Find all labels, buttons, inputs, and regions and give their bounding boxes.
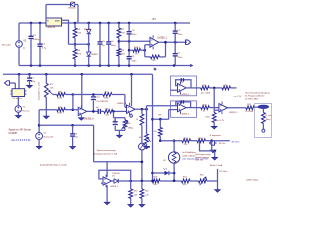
net label square on rail bbox=[154, 68, 156, 70]
svg-text:LM358_B: LM358_B bbox=[117, 103, 127, 105]
wire trim top join bbox=[114, 117, 126, 119]
svg-text:10n: 10n bbox=[75, 136, 78, 138]
wire to pot R1 bbox=[45, 74, 47, 83]
ground below R12 bbox=[139, 205, 144, 207]
wire cap to out node bbox=[92, 100, 94, 111]
wire row to R17 bbox=[160, 140, 182, 142]
ground loop bbox=[212, 158, 217, 160]
wire R4 to 0V bbox=[74, 59, 76, 66]
svg-text:ca. 1.7V: ca. 1.7V bbox=[234, 96, 242, 98]
wire V2 to ground bbox=[17, 112, 19, 115]
wire to C8 bbox=[128, 23, 130, 31]
wire U7 plus stub bbox=[214, 109, 219, 111]
svg-text:LM358_A: LM358_A bbox=[84, 117, 94, 120]
port line in bbox=[5, 81, 10, 85]
resistor R23 bbox=[201, 106, 210, 110]
wire to C4 bbox=[39, 23, 41, 44]
svg-text:10 mW 1 dBm: 10 mW 1 dBm bbox=[245, 98, 258, 100]
svg-text:Lautstärke ca. 1:10: Lautstärke ca. 1:10 bbox=[37, 81, 40, 100]
capacitor C9 bbox=[127, 56, 132, 58]
junction on 0V rail bbox=[39, 64, 42, 67]
junction U2 fb bbox=[164, 41, 167, 44]
svg-text:1Meg: 1Meg bbox=[128, 128, 134, 130]
wire node link bbox=[72, 95, 74, 110]
resistor R14 bbox=[182, 179, 191, 183]
lamp LA1 bbox=[168, 152, 179, 163]
wire trim bottom join bbox=[115, 129, 125, 131]
meter M1 (1 mA instrument) bbox=[139, 143, 146, 150]
resistor R12 bbox=[140, 189, 144, 198]
svg-text:Gleichspannungs-: Gleichspannungs- bbox=[195, 154, 211, 156]
wire trim cap top bbox=[114, 118, 116, 122]
wire C5 to 0V bbox=[99, 45, 101, 66]
potentiometer R1 bbox=[44, 83, 48, 97]
svg-text:Gleichstromfreier Ausgang: Gleichstromfreier Ausgang bbox=[245, 92, 270, 95]
wire rail to U5 power bbox=[131, 74, 133, 106]
svg-text:ca. 0.7V: ca. 0.7V bbox=[216, 120, 224, 122]
junction on 0V rail bbox=[173, 64, 176, 67]
wire R10 to meter bbox=[141, 125, 143, 143]
wire U8 power up bbox=[106, 162, 108, 177]
resistor R2 bbox=[117, 28, 121, 38]
wire R2 to R3 bbox=[118, 38, 120, 49]
capacitor C6 bbox=[106, 41, 111, 43]
wire fb loop speaker bbox=[200, 141, 212, 151]
wire rectifier row left bbox=[118, 180, 152, 182]
svg-text:100n: 100n bbox=[178, 57, 184, 59]
wire C7 to ground bbox=[29, 81, 31, 85]
svg-text:K1 Stereo: K1 Stereo bbox=[13, 97, 23, 100]
pot R16 arrow bbox=[147, 137, 151, 142]
wire fb left bbox=[73, 94, 103, 96]
wire U1 plus stub bbox=[171, 89, 178, 91]
wire D4 cathode bbox=[75, 4, 78, 6]
ground below R16 bbox=[144, 146, 149, 148]
junction V1 tap bbox=[38, 124, 41, 127]
capacitor C13 bbox=[181, 78, 183, 81]
wire to C5 bbox=[99, 23, 101, 42]
wire R12 to ground bbox=[141, 198, 143, 204]
rail +9V mid bbox=[3, 73, 153, 75]
junction on 0V rail bbox=[74, 64, 77, 67]
svg-text:für Frequenz-Weiche: für Frequenz-Weiche bbox=[245, 95, 265, 98]
junction on cap column bbox=[128, 49, 131, 52]
wire down to connector bbox=[14, 83, 16, 89]
wire U6 output bbox=[186, 107, 201, 109]
capacitor C3 bbox=[29, 35, 34, 37]
wire U8 plus stub bbox=[101, 182, 103, 184]
wire R20 out bbox=[231, 87, 237, 89]
wire lamp top bbox=[173, 141, 175, 152]
wire U2 output bbox=[159, 41, 187, 43]
wire LM317 output pin bbox=[62, 22, 64, 24]
wire to R12 bbox=[141, 181, 143, 189]
svg-text:KOKE5T: KOKE5T bbox=[9, 133, 19, 135]
capacitor C14 bbox=[181, 100, 183, 103]
wire to R11 bbox=[130, 181, 132, 189]
wire D2 to 0V bbox=[88, 56, 90, 65]
junction vref bbox=[118, 40, 121, 43]
junction in node bbox=[72, 108, 75, 111]
junction on 0V rail bbox=[107, 64, 110, 67]
junction U6 in bbox=[151, 118, 154, 121]
wire to D4 anode bbox=[46, 4, 71, 6]
wire fb to U2 output bbox=[165, 42, 167, 57]
diode D2 bbox=[87, 52, 91, 56]
capacitor C7 bbox=[27, 77, 32, 79]
junction C15 bbox=[71, 124, 74, 127]
wire R3a to node bbox=[65, 94, 73, 96]
junction on mid rail bbox=[28, 73, 31, 76]
resistor R13 bbox=[152, 179, 160, 183]
junction R9 top bbox=[159, 118, 162, 121]
svg-text:1N4002: 1N4002 bbox=[91, 54, 99, 56]
svg-text:Skala 0..1mA: Skala 0..1mA bbox=[210, 164, 223, 167]
ground below C15 bbox=[70, 147, 75, 149]
rail 0V bbox=[19, 65, 192, 67]
wire to C15 bbox=[72, 125, 74, 133]
junction fb cap bbox=[92, 93, 95, 96]
junction R9 bottom bbox=[159, 139, 162, 142]
wire C4 to 0V bbox=[39, 47, 41, 66]
svg-text:100Hz 500µs: 100Hz 500µs bbox=[246, 180, 258, 182]
wire pot R16 to ground bbox=[146, 144, 148, 146]
wire trim pot top bbox=[124, 118, 126, 120]
wire to R22 bbox=[129, 49, 133, 51]
rail +5V bbox=[63, 22, 190, 24]
port NF out bbox=[210, 141, 215, 145]
capacitor C4 bbox=[38, 43, 43, 45]
wire R18 out bbox=[206, 140, 212, 142]
annotation box 1 (OTA section) bbox=[171, 76, 197, 96]
wire port to connector bbox=[10, 82, 16, 84]
junction on +5V rail bbox=[99, 22, 102, 25]
lamp P_Line bbox=[258, 105, 269, 109]
resistor R19 bbox=[201, 86, 210, 90]
capacitor C11 bbox=[113, 121, 118, 123]
wire U5 output bbox=[135, 108, 148, 110]
resistor R6b bbox=[104, 110, 113, 114]
op-amp U4 bbox=[78, 107, 87, 115]
wire K1 to V2 bbox=[17, 97, 19, 106]
ground below V2 bbox=[16, 116, 21, 118]
wire R21 to load bbox=[254, 106, 258, 108]
capacitor C2 bbox=[173, 30, 178, 32]
junction loop bbox=[213, 150, 216, 153]
diode D4 bbox=[71, 2, 75, 6]
wire to C2 bbox=[174, 23, 176, 31]
wire U1 feedback bbox=[176, 80, 191, 88]
wire K1 pin d bbox=[25, 93, 27, 95]
trimmer R15 bbox=[199, 179, 208, 183]
junction on 0V rail bbox=[87, 64, 90, 67]
diode D1 bbox=[87, 30, 91, 34]
junction dc out bbox=[213, 87, 216, 90]
svg-text:4.7µ: 4.7µ bbox=[42, 47, 47, 49]
resistor R4a bbox=[73, 49, 77, 59]
voltage source V5 bbox=[16, 41, 23, 48]
wire C2 down bbox=[174, 34, 176, 42]
svg-text:LM358_4: LM358_4 bbox=[181, 113, 191, 115]
junction on mid rail bbox=[130, 73, 133, 76]
ground end of row bbox=[215, 190, 220, 192]
junction on 0V rail bbox=[99, 64, 102, 67]
load box outline bbox=[255, 104, 272, 138]
port Vref out bbox=[186, 40, 191, 44]
wire U7 output bbox=[228, 107, 246, 109]
wire NF out stub bbox=[215, 142, 217, 144]
wire to U2 inverting bbox=[145, 44, 150, 46]
svg-text:Rser=4: Rser=4 bbox=[23, 109, 31, 112]
wire v3 to LED bbox=[153, 172, 165, 174]
wire adj node to diodes bbox=[69, 43, 89, 45]
diode D5 bbox=[114, 179, 118, 183]
wire V1 to ground bbox=[38, 139, 40, 146]
capacitor C1 bbox=[173, 53, 178, 55]
wire vref to opamp U2 bbox=[119, 40, 150, 42]
wire to R10 bbox=[141, 109, 143, 114]
svg-text:gegenkopplung: gegenkopplung bbox=[195, 157, 209, 159]
junction U2 out cap bbox=[174, 41, 177, 44]
wire to U6 plus bbox=[153, 118, 169, 120]
wire R15 to ground drop bbox=[207, 180, 218, 182]
junction lamp top bbox=[173, 139, 176, 142]
wire to R6 bbox=[145, 56, 151, 58]
junction lamp row bbox=[173, 179, 176, 182]
wire to LM317 input bbox=[19, 22, 46, 24]
wire drop to R9 bbox=[159, 119, 161, 127]
wire speaker node right bbox=[212, 140, 230, 142]
svg-text:1N4002: 1N4002 bbox=[68, 8, 76, 10]
wire into U5 inverting bbox=[125, 106, 127, 108]
capacitor C12 bbox=[91, 96, 96, 98]
svg-text:über 2k2: über 2k2 bbox=[195, 160, 204, 162]
junction on 0V rail bbox=[118, 64, 121, 67]
svg-text:ges. 1/4W: ges. 1/4W bbox=[201, 93, 210, 95]
wire to R5 bbox=[74, 23, 76, 28]
wire V5 top to rail bbox=[18, 23, 20, 41]
wire R22 to loop bbox=[141, 49, 145, 51]
svg-text:100 Ohm: 100 Ohm bbox=[219, 171, 228, 173]
wire C9 to 0V bbox=[128, 60, 130, 66]
ground below R11 bbox=[128, 205, 133, 207]
resistor R20 bbox=[222, 86, 231, 90]
junction on +5V rail bbox=[107, 22, 110, 25]
wire U8 out to D5 bbox=[112, 180, 114, 182]
ground below trimmer bbox=[117, 135, 122, 137]
wire to C7 bbox=[29, 74, 31, 78]
junction on mid rail bbox=[81, 73, 84, 76]
wire W1 to rectifier bbox=[39, 124, 94, 126]
wire C1 to 0V bbox=[174, 57, 176, 66]
svg-text:Rser=50: Rser=50 bbox=[2, 43, 11, 46]
wire pot to ground bbox=[45, 97, 47, 116]
resistor R17 bbox=[182, 139, 191, 143]
resistor R22 bbox=[133, 48, 141, 52]
junction on 0V rail bbox=[128, 64, 131, 67]
wire rail to connector bbox=[18, 74, 20, 88]
wire up to diode D4 bbox=[45, 5, 47, 24]
wire fb down to U5 in bbox=[124, 95, 126, 108]
wire C8 to C9 bbox=[128, 35, 130, 57]
capacitor C15 bbox=[70, 133, 75, 135]
wire R13 to R14 bbox=[160, 180, 182, 182]
junction LED row left bbox=[151, 172, 154, 175]
wire C10 to R6b bbox=[100, 110, 104, 112]
resistor R18 bbox=[197, 139, 206, 143]
wire rail to U4 power bbox=[81, 74, 83, 108]
resistor R11 bbox=[129, 189, 133, 198]
resistor R10 bbox=[140, 114, 144, 125]
wire down to ground bbox=[217, 181, 219, 189]
svg-text:.tran 0 1.5 0.5 0.01: .tran 0 1.5 0.5 0.01 bbox=[11, 139, 32, 142]
wire RLoad to node bbox=[262, 124, 264, 130]
junction bottom feed bbox=[141, 161, 144, 164]
wire U4 out bbox=[87, 110, 98, 112]
svg-text:Rser=0.5k: Rser=0.5k bbox=[44, 136, 54, 139]
wire LM317 adj bbox=[62, 20, 69, 44]
wire U6 feedback bbox=[176, 102, 191, 108]
wire R14 to R15 bbox=[190, 180, 199, 182]
svg-text:1N4002: 1N4002 bbox=[84, 29, 92, 31]
LED D6 bbox=[165, 171, 169, 175]
junction U2 loop bbox=[144, 49, 147, 52]
wire lamp to RLoad bbox=[262, 109, 264, 113]
connector K1 bbox=[12, 89, 25, 97]
wire D1 to D2 bbox=[88, 34, 90, 48]
wire stub up bbox=[217, 169, 219, 181]
wire down to V1 bbox=[38, 110, 40, 133]
wire R4b to node bbox=[65, 109, 73, 111]
wire U8 power down bbox=[106, 185, 108, 202]
svg-text:1000µ: 1000µ bbox=[33, 39, 40, 41]
wire R23 to U7 bbox=[209, 107, 219, 109]
op-amp U7 bbox=[219, 104, 228, 112]
voltage source V2 bbox=[15, 106, 22, 113]
wire D4 down to output rail bbox=[77, 5, 79, 24]
wire R24 to ground bbox=[213, 123, 215, 127]
wire to U4 input bbox=[73, 109, 78, 111]
junction on +5V rail bbox=[30, 22, 33, 25]
wire fb vertical bbox=[144, 45, 146, 57]
capacitor C10 bbox=[98, 109, 100, 114]
junction on +5V rail bbox=[39, 22, 42, 25]
wire to D2 bbox=[88, 44, 90, 52]
wire trim cap bottom bbox=[114, 125, 116, 130]
resistor R6 bbox=[151, 55, 160, 59]
wire to R2 bbox=[118, 23, 120, 28]
junction vref cap bbox=[128, 40, 131, 43]
svg-text:100n: 100n bbox=[132, 34, 138, 36]
svg-text:Signal von NF-Sensor: Signal von NF-Sensor bbox=[9, 129, 32, 132]
svg-text:1Meg: 1Meg bbox=[266, 119, 271, 121]
annotation box 2 (buffer section) bbox=[171, 101, 197, 117]
resistor R5 bbox=[73, 28, 77, 38]
wire fb right bbox=[112, 94, 125, 96]
wire R17 to R18 bbox=[191, 140, 198, 142]
wire to C1 bbox=[174, 42, 176, 53]
wire U5 out to U6 inverting bbox=[147, 105, 178, 107]
junction long vert B bbox=[145, 108, 148, 111]
junction adj node bbox=[74, 43, 77, 46]
wire to U5 bbox=[113, 110, 127, 112]
trimmer R15 arrow bbox=[200, 177, 207, 186]
svg-text:R anpassen: R anpassen bbox=[210, 135, 222, 137]
wire R19 to R20 bbox=[209, 87, 222, 89]
resistor R4b bbox=[57, 108, 66, 112]
wire down to R24 bbox=[213, 110, 215, 112]
wire loop to ground bbox=[214, 151, 216, 157]
wire R6 to output bbox=[160, 56, 166, 58]
junction out node bbox=[92, 110, 95, 113]
junction long vert A bbox=[141, 108, 144, 111]
svg-text:R_Line: R_Line bbox=[266, 115, 272, 117]
regulator U3 LM317 bbox=[46, 18, 62, 26]
svg-text:LM358_2: LM358_2 bbox=[110, 186, 120, 188]
wire lamp bottom bbox=[173, 163, 175, 181]
wire loop right bbox=[212, 150, 215, 152]
wire to C6 bbox=[108, 23, 110, 42]
ground below pot bbox=[44, 116, 49, 118]
op-amp U6 bbox=[178, 103, 187, 111]
wire signal down to U8 bbox=[93, 125, 95, 162]
resistor R3 bbox=[117, 49, 121, 57]
trimmer R8 arrow bbox=[121, 121, 128, 130]
ground NF out bbox=[210, 150, 215, 152]
wire trim to ground bbox=[118, 130, 120, 135]
junction on +5V rail bbox=[128, 22, 131, 25]
wire C6 to 0V bbox=[108, 45, 110, 66]
junction speaker node bbox=[210, 139, 213, 142]
svg-text:100n: 100n bbox=[178, 34, 184, 36]
wire to D1 bbox=[88, 23, 90, 30]
junction R12 bbox=[141, 180, 144, 183]
capacitor C8 bbox=[127, 31, 132, 33]
junction v3 row bbox=[151, 180, 154, 183]
resistor R7 bbox=[103, 93, 112, 97]
svg-text:LM317B: LM317B bbox=[47, 27, 56, 29]
svg-text:Anzeigeinstrument 1 mA: Anzeigeinstrument 1 mA bbox=[93, 153, 117, 156]
wire R4b to V1 bbox=[39, 109, 57, 111]
op-amp U1 bbox=[178, 84, 187, 93]
resistor R3a bbox=[57, 93, 66, 97]
wire trim pot bottom bbox=[124, 128, 126, 130]
ground below V1 bbox=[37, 147, 42, 149]
op-amp U8 bbox=[103, 177, 112, 185]
svg-text:ADJ: ADJ bbox=[55, 20, 58, 23]
wire U1 output bbox=[186, 87, 201, 89]
wire V5 bottom to ground rail bbox=[18, 47, 20, 65]
junction R11 bbox=[129, 180, 132, 183]
resistor R24 bbox=[212, 113, 216, 123]
junction on 0V rail bbox=[30, 64, 33, 67]
wire R9 to LED row bbox=[159, 136, 161, 140]
capacitor C5 bbox=[98, 41, 103, 43]
wire long vertical B bbox=[146, 106, 148, 134]
potentiometer R16 bbox=[145, 134, 149, 144]
junction on mid rail bbox=[18, 73, 21, 76]
wire C3 to 0V bbox=[30, 39, 32, 65]
svg-text:100µ: 100µ bbox=[111, 45, 117, 47]
voltage source V1 bbox=[36, 133, 43, 140]
node circle in load box bbox=[262, 129, 265, 132]
wire bottom feed bbox=[93, 161, 141, 163]
wire into U6 plus bbox=[169, 109, 178, 111]
wire U8 feedback bbox=[99, 170, 131, 181]
ground U4 power bbox=[79, 118, 84, 120]
junction on +5V rail bbox=[74, 22, 77, 25]
junction diode mid bbox=[87, 43, 90, 46]
